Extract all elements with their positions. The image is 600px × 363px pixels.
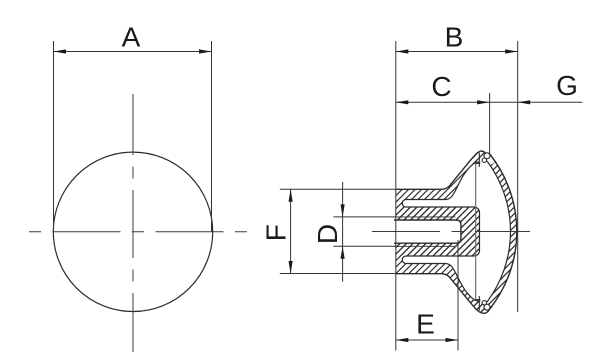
svg-text:C: C — [431, 71, 451, 102]
A ext right — [211, 41, 213, 232]
hatch fill dome shell — [487, 154, 517, 310]
left view H centerline — [29, 231, 247, 233]
svg-text:D: D — [312, 224, 343, 244]
A arrow right — [199, 49, 212, 53]
B ext right — [517, 41, 519, 312]
C arrow left — [396, 100, 409, 104]
G dim line — [518, 101, 583, 103]
B arrow left — [396, 49, 409, 53]
cavity floor line — [475, 299, 480, 301]
dome outer arc — [489, 154, 516, 310]
F arrow top — [289, 189, 293, 202]
bore minor outline — [394, 220, 461, 243]
E arrow left — [396, 338, 409, 342]
roll loop top — [482, 158, 486, 162]
D arrow bottom (pointing up) — [341, 246, 345, 258]
svg-text:A: A — [122, 22, 141, 53]
cavity ceiling line — [475, 162, 480, 164]
F arrow bottom — [289, 261, 293, 274]
A ext left — [53, 41, 55, 231]
left view circle — [53, 152, 212, 311]
F ext top — [280, 188, 396, 190]
D dim line — [342, 182, 344, 282]
bead top — [484, 153, 490, 159]
E dim line — [396, 339, 458, 341]
svg-text:G: G — [556, 70, 578, 101]
A arrow left — [54, 49, 67, 53]
F dim line — [290, 189, 292, 273]
A dim line — [54, 51, 212, 53]
D ext top — [333, 216, 395, 218]
part outline: top outer — [396, 151, 486, 189]
C arrow right — [477, 100, 490, 104]
roll loop bottom — [482, 301, 486, 305]
dome inner arc — [487, 161, 510, 302]
E ext right — [457, 240, 459, 351]
C ext line — [489, 93, 491, 154]
svg-text:F: F — [260, 224, 291, 241]
svg-text:E: E — [416, 309, 435, 340]
C-G chain segment — [490, 101, 518, 103]
right view centerline — [369, 231, 530, 233]
B dim line — [396, 51, 518, 53]
svg-text:B: B — [445, 22, 464, 53]
part outline: skirt inner top — [446, 162, 480, 199]
B ext left / part face line — [395, 41, 397, 351]
bottom V junction solid — [469, 297, 493, 313]
skirt inner bottom — [446, 264, 480, 301]
G arrow — [518, 100, 531, 104]
hatch fill top sleeve+skirt+hub — [396, 151, 486, 256]
D arrow top (pointing down) — [341, 204, 345, 217]
rim short edge bottom — [478, 296, 480, 311]
F ext bottom — [280, 273, 396, 275]
left view V centerline — [132, 94, 134, 352]
rim short edge top — [478, 153, 480, 168]
slot + hub outline — [402, 200, 479, 264]
bead bottom — [484, 304, 490, 310]
D ext bottom — [333, 245, 395, 247]
B arrow right — [505, 49, 518, 53]
thread major lines — [394, 217, 455, 246]
hatch-free zone near top bead — [484, 153, 496, 165]
bore white fill (minor dia) — [394, 220, 461, 243]
C dim line — [396, 101, 490, 103]
hatch fill bottom sleeve+skirt+hub — [396, 207, 490, 313]
part outline: bottom outer — [396, 274, 490, 314]
E arrow right — [446, 338, 459, 342]
rim silhouette line (gray) — [475, 164, 477, 300]
